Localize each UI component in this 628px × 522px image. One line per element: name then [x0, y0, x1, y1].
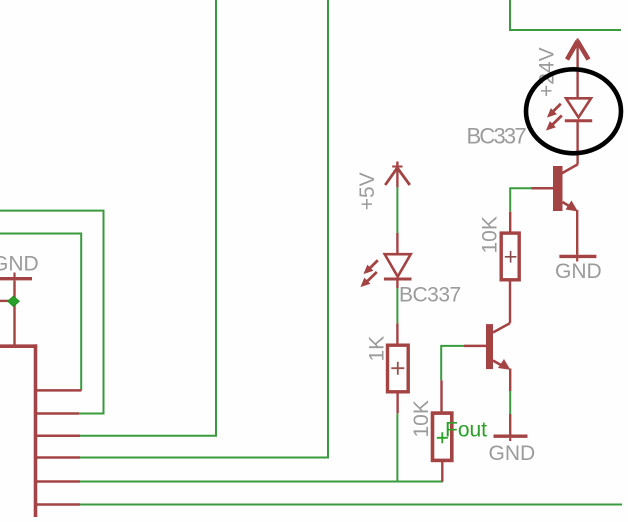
- wire trunk vertical: [34, 344, 38, 517]
- resistor 1K: [396, 323, 398, 345]
- resistor 10K (Fout): [440, 380, 442, 413]
- wire Q2 base corner: [441, 346, 464, 381]
- wire branch 6: [79, 504, 622, 506]
- wire branch 1 red: [36, 389, 82, 392]
- ground GND Q2: [494, 435, 528, 438]
- svg-text:Fout: Fout: [445, 418, 487, 441]
- svg-text:1K: 1K: [366, 336, 389, 362]
- resistor origin cross: [391, 362, 404, 375]
- resistor 10K (Q1 base): [509, 212, 511, 233]
- wire left gnd stub above: [13, 273, 15, 278]
- transistor Q2: [464, 323, 510, 391]
- ground GND left bar: [0, 277, 32, 280]
- supply +5V arrow: [385, 162, 410, 188]
- wire diamond pin: [0, 300, 10, 302]
- wire branch 5: [79, 481, 443, 483]
- wire left vertical: [13, 281, 15, 347]
- wire corner A left: [0, 211, 104, 414]
- LED D2: [384, 233, 412, 288]
- svg-text:10K: 10K: [410, 400, 433, 437]
- wire branch 4 red: [36, 456, 81, 459]
- svg-text:GND: GND: [555, 260, 602, 283]
- LED D2 emission arrows: [361, 260, 378, 286]
- wire Q2 emitter green segment: [509, 391, 511, 414]
- LED D1: [565, 98, 592, 164]
- svg-text:GND: GND: [489, 442, 536, 465]
- wire +5V arrow to LED2: [396, 187, 398, 233]
- wire Q2 emitter red lower: [509, 414, 511, 435]
- wire net top-right corner: [510, 0, 621, 30]
- wire vertical x328 with branch to trunk: [79, 0, 328, 458]
- svg-text:BC337: BC337: [399, 283, 461, 306]
- ground GND Q1: [559, 255, 596, 258]
- wire branch 2 red: [36, 412, 80, 415]
- wire corner B left: [0, 234, 81, 391]
- wire thick horizontal: [0, 344, 37, 348]
- svg-text:BC337: BC337: [467, 124, 527, 149]
- svg-text:+5V: +5V: [356, 172, 379, 210]
- annotation circle: [526, 69, 621, 153]
- node junction diamond: [8, 296, 19, 306]
- svg-text:10K: 10K: [479, 216, 502, 253]
- wire LED2 to 1K: [396, 288, 398, 323]
- supply +24V arrow: [567, 39, 589, 99]
- wire branch 6 red: [36, 503, 81, 506]
- resistor origin cross: [505, 251, 517, 263]
- node Fout origin cross: [437, 432, 448, 443]
- transistor Q1: [531, 164, 578, 255]
- svg-text:GND: GND: [0, 253, 39, 276]
- wire vertical x216 with branch to trunk: [79, 0, 216, 436]
- wire 1K bottom: [396, 413, 398, 481]
- wire branch 5 red: [36, 480, 81, 483]
- wire branch 3 red: [36, 435, 81, 438]
- LED D1 emission arrows: [547, 104, 562, 130]
- wire Q1 base corner: [510, 188, 531, 212]
